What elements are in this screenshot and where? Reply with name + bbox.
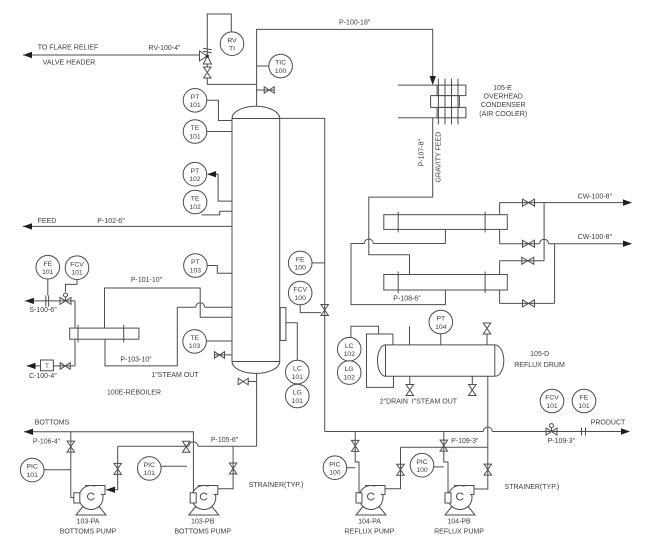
- pump 104-PB: [445, 507, 475, 515]
- valve column bottom drain: [238, 378, 248, 385]
- svg-text:P-102-6″: P-102-6″: [97, 218, 125, 225]
- svg-text:101: 101: [71, 270, 83, 277]
- wire drum drain stub 2: [471, 376, 473, 384]
- svg-text:BOTTOMS PUMP: BOTTOMS PUMP: [60, 529, 117, 536]
- node arrow product: [621, 428, 630, 434]
- wire main product line with hop: [325, 431, 484, 433]
- steam trap box: [41, 360, 54, 371]
- wire column bottom drain stub: [248, 381, 257, 383]
- svg-text:FCV: FCV: [545, 395, 559, 402]
- wire PIC100-2 stub: [433, 466, 444, 468]
- instrument FE 101 product: [572, 389, 596, 413]
- svg-text:RV: RV: [227, 37, 237, 44]
- instrument RV TI: [220, 32, 244, 56]
- svg-text:PT: PT: [191, 259, 200, 266]
- svg-text:P-105-6″: P-105-6″: [211, 437, 239, 444]
- valve crossover: [522, 257, 534, 264]
- svg-text:GRAVITY FEED: GRAVITY FEED: [435, 132, 442, 183]
- wire reboiler liquid line P-103-10 with hop: [105, 307, 177, 366]
- wire PIC101-2 stub: [160, 465, 187, 467]
- instrument LG 102: [337, 361, 361, 385]
- wire HX1 top-right to CW line 1: [499, 203, 501, 215]
- svg-text:STRAINER(TYP.): STRAINER(TYP.): [249, 482, 304, 489]
- valve drum vent: [483, 323, 491, 334]
- instrument PT 103: [184, 254, 208, 278]
- svg-text:PRODUCT: PRODUCT: [591, 420, 626, 427]
- svg-text:PIC: PIC: [27, 464, 38, 471]
- svg-text:TE: TE: [190, 335, 199, 342]
- valve column left drain: [215, 352, 225, 359]
- heat exchanger condenser upper shell: [384, 215, 508, 230]
- svg-text:PT: PT: [191, 94, 200, 101]
- instrument PIC 100 second: [410, 453, 434, 477]
- svg-text:REFLUX DRUM: REFLUX DRUM: [514, 362, 565, 369]
- wire gravity feed line P-107-8: [369, 118, 433, 275]
- column side nozzle: [280, 308, 286, 341]
- svg-text:FEED: FEED: [38, 218, 57, 225]
- wire relief valve outlet to overhead line: [207, 78, 256, 84]
- svg-text:100: 100: [416, 467, 428, 474]
- wire PIC100-1 stub: [346, 467, 355, 469]
- control valve product line: [546, 428, 557, 435]
- svg-text:102: 102: [344, 374, 356, 381]
- wire PT103 to column: [207, 266, 232, 274]
- svg-text:P-106-4″: P-106-4″: [33, 438, 61, 445]
- svg-text:PIC: PIC: [329, 461, 340, 468]
- node arrow into air cooler: [430, 76, 436, 85]
- svg-text:CW-100-8″: CW-100-8″: [578, 234, 613, 241]
- svg-text:RV-100-4″: RV-100-4″: [149, 45, 181, 52]
- valve 104-PA discharge strainer: [397, 464, 405, 475]
- instrument FE 100: [288, 251, 312, 275]
- svg-text:REFLUX PUMP: REFLUX PUMP: [345, 529, 395, 536]
- instrument LC 102: [337, 337, 361, 361]
- svg-text:FE: FE: [296, 257, 305, 264]
- svg-text:105-D: 105-D: [530, 351, 549, 358]
- svg-text:104: 104: [435, 324, 447, 331]
- svg-text:100: 100: [329, 470, 341, 477]
- svg-text:C-100-4″: C-100-4″: [29, 373, 57, 380]
- wire nozzle to LC101: [286, 323, 297, 360]
- svg-text:2″DRAIN I″STEAM OUT: 2″DRAIN I″STEAM OUT: [380, 399, 458, 406]
- wire second crossover down leg: [554, 244, 556, 304]
- svg-text:S-100-6″: S-100-6″: [29, 307, 57, 314]
- valve 104-PB discharge strainer: [484, 464, 492, 475]
- node arrow CW-100-8 upper: [623, 199, 632, 205]
- svg-text:100: 100: [295, 295, 307, 302]
- svg-text:101: 101: [42, 269, 54, 276]
- svg-text:VALVE HEADER: VALVE HEADER: [43, 60, 96, 67]
- wire reflux pump discharge header: [401, 446, 488, 448]
- svg-text:T: T: [45, 364, 49, 370]
- valve second crossover: [523, 300, 535, 307]
- wire drum drain stub 1: [409, 376, 411, 384]
- node arrow CW-100-8 lower: [623, 241, 632, 247]
- svg-text:102: 102: [189, 204, 201, 211]
- valve 103-PB discharge strainer: [229, 463, 237, 474]
- orifice flow element FE101: [45, 296, 47, 307]
- wire drum top stub: [409, 326, 411, 345]
- svg-text:REFLUX PUMP: REFLUX PUMP: [434, 529, 484, 536]
- wire relief valve stem to RV instrument loop: [207, 14, 231, 56]
- svg-text:P-103-10″: P-103-10″: [120, 357, 152, 364]
- instrument TIC 100: [269, 54, 293, 78]
- wire crossover to HX2 top-right: [500, 260, 544, 262]
- svg-text:LC: LC: [345, 343, 354, 350]
- valve bottoms header: [182, 441, 190, 452]
- wire 104-PA discharge riser: [385, 447, 401, 489]
- svg-text:TE: TE: [191, 196, 200, 203]
- wire column bottom outlet: [256, 373, 258, 446]
- wire PT104 stem: [440, 334, 442, 345]
- wire 104-PB suction riser: [444, 432, 448, 493]
- svg-text:BOTTOMS: BOTTOMS: [35, 420, 70, 427]
- svg-text:PT: PT: [191, 168, 200, 175]
- wire flare header line RV-100-4: [23, 54, 200, 56]
- instrument TE 101: [183, 120, 207, 144]
- node arrow to flare relief: [23, 52, 32, 58]
- node arrow bottoms: [24, 429, 33, 435]
- instrument PT 101: [183, 89, 207, 113]
- svg-text:P-101-10″: P-101-10″: [131, 277, 163, 284]
- wire bottoms line P-106-4: [24, 432, 193, 493]
- pump 104-PA: [356, 507, 386, 515]
- valve FCV100 on vertical line: [321, 305, 329, 316]
- pump 103-PB: [189, 507, 219, 515]
- control valve FCV101 on steam line: [60, 297, 71, 304]
- wire 104-PA suction riser: [355, 432, 359, 493]
- wire condensate from reboiler: [53, 339, 75, 366]
- wire 103-PA suction riser: [71, 432, 74, 498]
- wire HX1 bottom-right to CW line 2 with hop: [499, 229, 501, 243]
- instrument PT 102: [183, 162, 207, 186]
- wire column top to FCV100 leg: [280, 118, 325, 431]
- valve vent stub: [264, 87, 274, 94]
- wire PIC101-1 stub: [43, 469, 71, 471]
- instrument FCV 101: [65, 256, 89, 280]
- heat exchanger condenser lower shell: [384, 275, 508, 291]
- wire CW crossover down leg: [543, 203, 545, 261]
- wire TE102 to column: [202, 211, 233, 215]
- wire second crossover to HX2 bottom-right: [500, 302, 555, 304]
- svg-text:103-PA: 103-PA: [77, 518, 100, 525]
- svg-text:104-PA: 104-PA: [358, 518, 381, 525]
- svg-text:TO FLARE RELIEF: TO FLARE RELIEF: [38, 45, 99, 52]
- air cooler 105-E overhead condenser: [398, 84, 437, 86]
- wire FE100 stub: [312, 262, 325, 264]
- relief valve PSV (angle valve with spring): [200, 51, 208, 61]
- svg-text:STRAINER(TYP.): STRAINER(TYP.): [505, 484, 560, 491]
- wire reboiler vapor return P-101-10: [105, 288, 233, 328]
- wire 103-PA discharge riser: [106, 446, 118, 489]
- svg-text:LC: LC: [293, 366, 302, 373]
- wire PT101 to column: [207, 100, 232, 120]
- valve 104-PA suction: [351, 440, 359, 451]
- svg-text:P-107-8″: P-107-8″: [419, 138, 426, 166]
- svg-text:PIC: PIC: [144, 462, 155, 469]
- node arrow feed: [23, 223, 32, 229]
- svg-text:101: 101: [292, 398, 304, 405]
- svg-text:P-109-3″: P-109-3″: [451, 438, 479, 445]
- column distillation tower shell: [232, 106, 280, 373]
- svg-text:100E-REBOILER: 100E-REBOILER: [107, 390, 161, 397]
- svg-text:CW-100-8″: CW-100-8″: [578, 194, 613, 201]
- wire column left drain stub: [215, 354, 232, 356]
- svg-text:105-E: 105-E: [493, 85, 512, 92]
- svg-text:LG: LG: [345, 366, 354, 373]
- wire TIC 100 stub: [257, 65, 269, 67]
- instrument PIC 101 second: [138, 457, 162, 481]
- wire vent stub on overhead line: [257, 89, 275, 91]
- svg-text:P-100-18″: P-100-18″: [339, 20, 371, 27]
- wire overhead vapor line P-100-18 column top to air cooler: [257, 29, 433, 106]
- wire drum vent stem: [486, 334, 488, 345]
- svg-text:CONDENSER: CONDENSER: [481, 102, 526, 109]
- svg-text:P-109-3″: P-109-3″: [548, 438, 576, 445]
- svg-text:FCV: FCV: [70, 261, 84, 268]
- instrument TE 103: [183, 330, 207, 354]
- valve 104-PB suction: [440, 440, 448, 451]
- svg-text:104-PB: 104-PB: [447, 518, 471, 525]
- wire TE101 to column: [207, 131, 232, 133]
- svg-text:100: 100: [275, 68, 287, 75]
- instrument LG 101: [286, 384, 310, 408]
- svg-text:LG: LG: [293, 390, 302, 397]
- wire steam into reboiler top: [74, 301, 76, 328]
- svg-text:103: 103: [189, 343, 201, 350]
- svg-text:101: 101: [189, 102, 201, 109]
- reflux drum 105-D shell: [378, 345, 504, 376]
- node arrow steam: [25, 298, 34, 304]
- valve drum drain 1: [406, 385, 414, 396]
- svg-text:101: 101: [144, 470, 156, 477]
- svg-text:100: 100: [295, 265, 307, 272]
- wire FE101 stem: [47, 279, 49, 295]
- valve 103-PA suction: [67, 441, 75, 452]
- wire FCV101 link: [66, 280, 78, 292]
- wire steam supply S-100-6: [25, 300, 75, 302]
- svg-text:TIC: TIC: [275, 60, 286, 67]
- instrument FCV 100: [288, 281, 312, 305]
- svg-text:101: 101: [27, 472, 39, 479]
- svg-text:TI: TI: [229, 46, 235, 53]
- svg-text:PIC: PIC: [416, 459, 427, 466]
- wire condensate to C-100-4 arrow: [27, 365, 41, 367]
- instrument LC 101: [286, 360, 310, 384]
- svg-text:101: 101: [578, 403, 590, 410]
- svg-text:101: 101: [189, 133, 201, 140]
- reboiler 100E shell: [70, 328, 139, 339]
- valve CW1: [523, 199, 535, 206]
- svg-text:TE: TE: [191, 125, 200, 132]
- svg-text:P-108-6″: P-108-6″: [393, 296, 421, 303]
- svg-text:103-PB: 103-PB: [191, 518, 215, 525]
- wire bottoms pump header P-105-6 with hop: [118, 445, 189, 447]
- svg-text:1″STEAM OUT: 1″STEAM OUT: [151, 372, 199, 379]
- wire drum level bridle loop: [367, 334, 394, 387]
- wire drum outlet leg to 104-PB: [474, 376, 488, 489]
- instrument FE 101: [36, 255, 60, 279]
- wire HX1 bottom-left process line with hop: [444, 229, 446, 243]
- svg-text:101: 101: [546, 403, 558, 410]
- svg-text:PT: PT: [436, 316, 445, 323]
- valve CW2: [523, 240, 535, 247]
- valve condensate: [60, 363, 70, 370]
- wire FEED line P-102-6: [23, 225, 232, 227]
- spec break product line: [581, 428, 583, 436]
- wire LC102 link: [351, 326, 379, 337]
- pump 103-PA: [76, 507, 106, 515]
- svg-text:102: 102: [189, 176, 201, 183]
- svg-text:(AIR COOLER): (AIR COOLER): [479, 111, 527, 118]
- wire FCV100 link: [300, 305, 321, 313]
- gate valve under relief valve: [206, 64, 208, 67]
- wire 103-PB discharge riser: [218, 446, 233, 489]
- valve 103-PA discharge strainer: [114, 463, 122, 474]
- svg-text:BOTTOMS PUMP: BOTTOMS PUMP: [174, 529, 231, 536]
- svg-text:OVERHEAD: OVERHEAD: [484, 93, 523, 100]
- svg-text:FCV: FCV: [293, 287, 307, 294]
- instrument PIC 101 first: [20, 458, 44, 482]
- svg-text:101: 101: [292, 374, 304, 381]
- node arrow into 103-PA: [106, 487, 115, 493]
- instrument PT 104: [429, 310, 453, 334]
- svg-text:FE: FE: [580, 395, 589, 402]
- valve drum drain 2: [469, 385, 477, 396]
- wire TE103 to column: [207, 340, 233, 342]
- instrument PIC 100 first: [323, 456, 347, 480]
- svg-text:102: 102: [344, 351, 356, 358]
- wire PT102 to column with arrow: [208, 174, 232, 201]
- instrument FCV 101 product: [540, 389, 564, 413]
- svg-text:103: 103: [190, 267, 202, 274]
- instrument TE 102: [183, 190, 207, 214]
- svg-text:FE: FE: [43, 261, 52, 268]
